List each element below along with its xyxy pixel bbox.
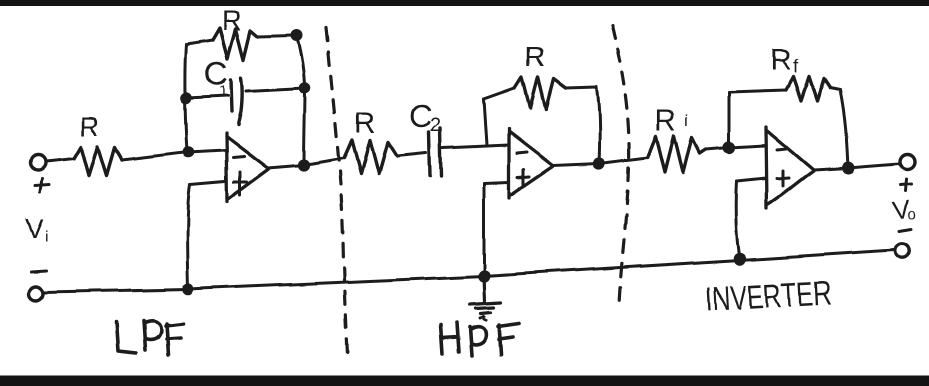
op-amp U1 minus sign [233,156,244,157]
label C2 [409,98,441,136]
wire Rf to right vertical [830,88,840,90]
wire feedback left vertical (LPF) [185,44,187,152]
label Vi [26,213,49,245]
wire input terminal to R [46,159,74,162]
wire Rf feedback right vertical [840,90,848,168]
wire C2 to op-amp2 minus input [443,145,509,148]
op-amp U3 minus sign [777,149,786,150]
node C1 right junction [301,84,310,93]
wire LPF feedback top [186,40,213,44]
resistor R (HPF series) [344,140,397,174]
ground (HPF) [470,276,501,320]
node op-amp3 plus rail junction [735,254,745,264]
op-amp U1 plus sign [234,172,247,195]
node inverter input junction [724,143,733,152]
plus polarity mark (output) [900,179,911,191]
svg-text:i: i [685,111,689,130]
input terminal + (top-left) [31,156,46,171]
label Vo [891,194,916,226]
output terminal + (top-right) [900,155,915,170]
wire bottom rail [44,250,894,292]
op-amp U3 plus sign [777,171,789,186]
resistor R (input, LPF) [74,147,122,176]
wire op-amp1 plus to ground rail [187,184,190,289]
minus polarity mark (input) [31,271,47,272]
node rail junction (op-amp1 plus) [184,285,193,294]
svg-text:R: R [655,104,677,137]
wire Rf feedback left vertical [728,92,731,148]
svg-text:R: R [222,5,242,36]
dashed separator line 1 [326,28,347,356]
wire C1 right [246,88,305,91]
op-amp U2 plus sign [518,169,530,184]
svg-text:i: i [45,228,49,245]
svg-text:R: R [354,106,376,139]
op-amp U3 (inverter) [766,127,813,208]
resistor R (HPF feedback) [515,77,566,110]
wire node to op-amp3 minus input [729,146,766,148]
svg-text:R: R [770,44,792,77]
node C1 left junction [182,94,191,103]
svg-text:C: C [409,98,432,134]
resistor Ri [648,136,706,172]
wire op-amp3 plus input [737,179,766,182]
op-amp U1 (LPF) [226,133,269,202]
wire op-amp2 plus to ground [483,183,486,276]
wire op-amp1 output [268,158,344,168]
resistor Rf [786,77,830,101]
svg-text:V: V [26,213,44,243]
label C1 [204,55,229,100]
label Ri [655,104,689,137]
wire node to op-amp1 minus input [188,150,225,152]
wire HPF feedback top left [484,88,515,99]
wire HPF feedback right vertical [597,87,600,163]
dashed separator line 2 [612,25,629,305]
wire R to inverting node [122,152,188,160]
node top-right corner LPF [293,32,302,41]
output terminal - (bottom-right) [895,244,909,258]
wire Rf feedback top left [729,90,786,92]
wire op-amp3 plus to rail [736,182,740,259]
wire HPF feedback left vertical [484,99,487,145]
node HPF output [594,158,603,167]
label Rf [770,44,799,78]
op-amp U2 minus sign [517,152,527,153]
capacitor C1 [231,78,242,125]
plus polarity mark (input) [35,179,49,192]
wire op-amp2 plus input [484,182,509,183]
svg-text:f: f [793,57,799,78]
svg-text:R: R [525,41,545,72]
wire op-amp1 plus input [190,181,225,184]
wire C1 left [186,96,228,98]
capacitor C2 [429,128,441,177]
svg-text:R: R [79,111,99,142]
input terminal - (bottom-left) [29,286,43,300]
wire R to C2 [397,153,426,156]
svg-text:o: o [908,206,916,223]
node HPF ground junction [479,271,489,281]
label HPF [441,323,519,356]
wire Ri to node [706,148,729,150]
svg-text:1: 1 [219,83,227,100]
label LPF [116,321,183,355]
wire feedback resistor to top-right corner [258,36,293,37]
op-amp U2 (HPF) [509,128,553,198]
wire op-amp2 output [553,157,648,165]
minus polarity mark (output) [899,229,911,231]
wire op-amp3 output [813,164,899,170]
node A (op-amp 1 inverting input junction) [184,148,193,157]
wire feedback right vertical (LPF) [297,36,305,165]
ground tail mark above HPF label [480,316,484,318]
resistor R (LPF feedback) [213,28,258,60]
node LPF output [299,160,308,169]
wire HPF feedback top right [566,87,597,88]
node inverter output [843,163,853,173]
svg-text:INVERTER: INVERTER [704,274,832,319]
